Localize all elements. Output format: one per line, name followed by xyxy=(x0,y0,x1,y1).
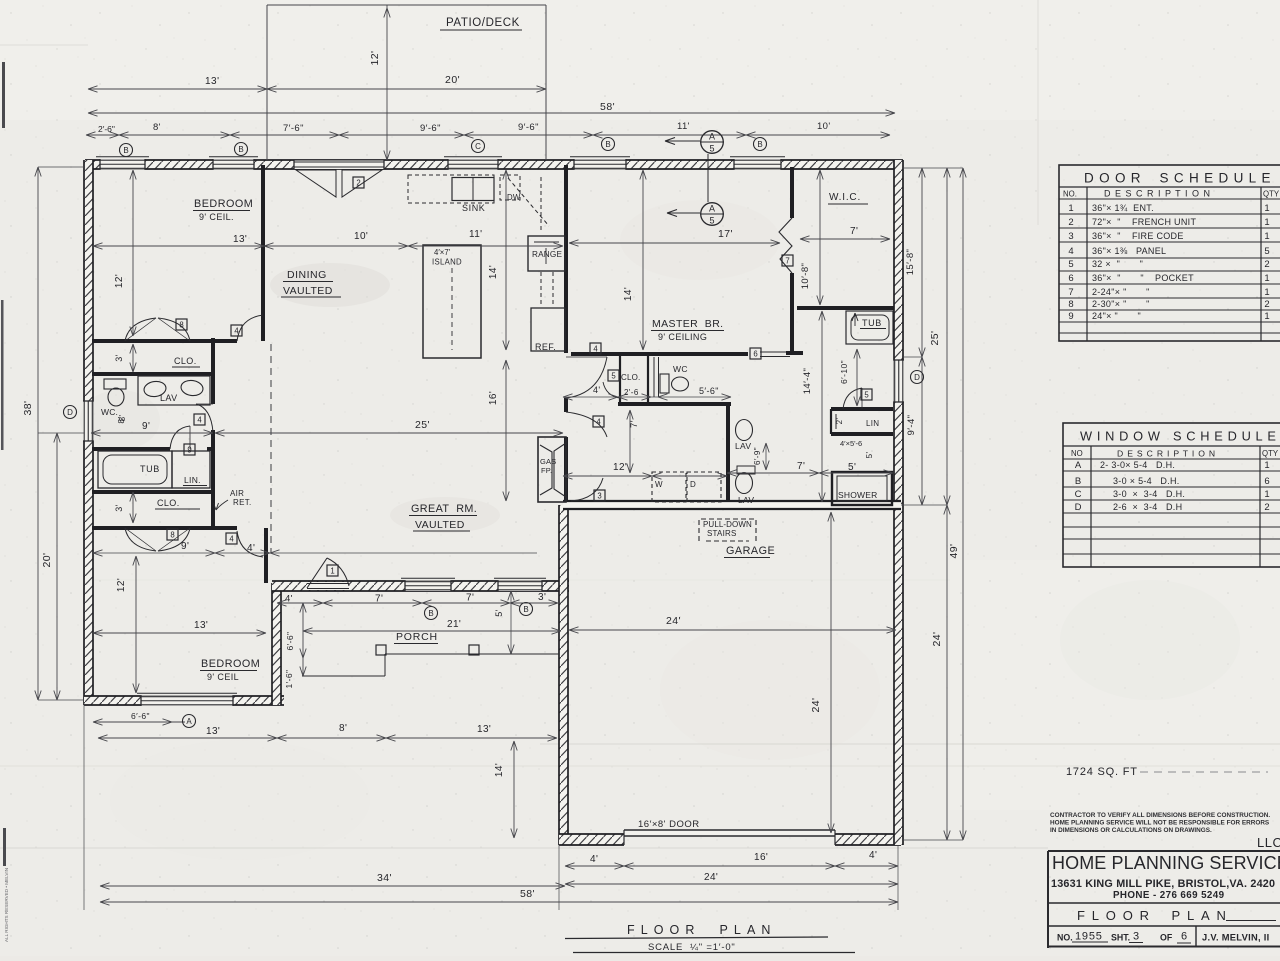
svg-text:9′-4": 9′-4" xyxy=(906,415,917,436)
svg-text:A: A xyxy=(709,132,715,142)
svg-text:4': 4' xyxy=(285,594,293,605)
svg-text:2': 2' xyxy=(835,418,844,425)
svg-text:58': 58' xyxy=(600,101,615,113)
svg-text:BEDROOM: BEDROOM xyxy=(194,198,253,210)
svg-text:12': 12' xyxy=(613,462,627,473)
svg-text:5: 5 xyxy=(709,216,714,226)
svg-text:16': 16' xyxy=(754,852,768,863)
svg-text:PORCH: PORCH xyxy=(396,631,438,643)
svg-text:6′-9": 6′-9" xyxy=(753,447,762,465)
svg-text:5: 5 xyxy=(1068,259,1073,270)
svg-text:36"× " " POCKET: 36"× " " POCKET xyxy=(1092,273,1194,283)
svg-text:ALL RIGHTS RESERVED • MELVIN: ALL RIGHTS RESERVED • MELVIN xyxy=(4,868,9,942)
svg-text:10′-8": 10′-8" xyxy=(800,263,811,290)
svg-text:C: C xyxy=(1075,489,1082,500)
svg-text:4: 4 xyxy=(234,326,239,335)
svg-text:HOME PLANNING SERVICE WILL NOT: HOME PLANNING SERVICE WILL NOT BE RESPON… xyxy=(1050,820,1270,827)
svg-text:2: 2 xyxy=(1264,259,1269,270)
svg-text:17': 17' xyxy=(718,228,733,240)
svg-text:3-0 × 3-4 D.H.: 3-0 × 3-4 D.H. xyxy=(1113,489,1185,499)
svg-text:4′×7': 4′×7' xyxy=(434,248,451,257)
svg-text:16′×8' DOOR: 16′×8' DOOR xyxy=(638,819,700,830)
svg-text:72"× " FRENCH UNIT: 72"× " FRENCH UNIT xyxy=(1092,217,1196,227)
svg-text:D E S C R I P T I O N: D E S C R I P T I O N xyxy=(1117,449,1216,459)
svg-text:W.I.C.: W.I.C. xyxy=(829,192,861,203)
svg-text:5: 5 xyxy=(1264,246,1269,257)
svg-text:24': 24' xyxy=(666,615,681,627)
svg-text:5': 5' xyxy=(865,452,874,459)
svg-text:A: A xyxy=(709,204,715,214)
svg-text:7': 7' xyxy=(466,593,474,604)
svg-text:12': 12' xyxy=(114,274,125,288)
svg-text:14': 14' xyxy=(494,763,505,777)
svg-text:13': 13' xyxy=(194,620,208,631)
svg-text:CLO.: CLO. xyxy=(621,373,640,382)
svg-text:1: 1 xyxy=(1264,231,1269,242)
svg-text:LAV: LAV xyxy=(738,495,754,505)
svg-text:PHONE - 276 669 5249: PHONE - 276 669 5249 xyxy=(1113,890,1225,901)
svg-text:D O O R S C H E D U L E: D O O R S C H E D U L E xyxy=(1084,171,1271,186)
svg-text:6: 6 xyxy=(753,349,757,358)
svg-text:8: 8 xyxy=(170,530,174,539)
svg-text:CLO.: CLO. xyxy=(174,356,197,366)
svg-text:D: D xyxy=(914,373,920,382)
svg-text:20': 20' xyxy=(41,553,53,568)
svg-text:16': 16' xyxy=(488,391,499,405)
svg-text:4: 4 xyxy=(596,417,601,426)
svg-text:2: 2 xyxy=(1068,217,1073,228)
svg-text:9' CEIL: 9' CEIL xyxy=(207,672,239,682)
svg-text:14': 14' xyxy=(623,287,634,301)
svg-text:36"× " FIRE CODE: 36"× " FIRE CODE xyxy=(1092,231,1184,241)
svg-text:24': 24' xyxy=(810,698,822,713)
svg-text:4': 4' xyxy=(593,385,601,395)
svg-text:1′-6": 1′-6" xyxy=(284,670,294,689)
svg-text:B: B xyxy=(428,609,433,618)
svg-text:36"× 1⅜ PANEL: 36"× 1⅜ PANEL xyxy=(1092,246,1166,256)
svg-text:FP.: FP. xyxy=(541,466,552,475)
svg-text:8: 8 xyxy=(1068,299,1073,310)
svg-text:SCALE ¼" =1′-0": SCALE ¼" =1′-0" xyxy=(648,942,736,953)
svg-text:B: B xyxy=(1075,476,1081,487)
svg-text:2- 3-0× 5-4 D.H.: 2- 3-0× 5-4 D.H. xyxy=(1100,460,1175,470)
svg-text:32 × " ": 32 × " " xyxy=(1092,259,1143,269)
svg-text:6′-6": 6′-6" xyxy=(131,711,150,721)
svg-text:4': 4' xyxy=(590,854,598,865)
svg-text:21': 21' xyxy=(447,619,461,630)
svg-text:24': 24' xyxy=(704,872,718,883)
svg-text:7: 7 xyxy=(1068,287,1073,298)
svg-text:4: 4 xyxy=(229,534,234,543)
svg-text:OF: OF xyxy=(1160,933,1173,943)
svg-text:4': 4' xyxy=(247,543,255,554)
svg-text:1: 1 xyxy=(1068,203,1073,214)
svg-text:D: D xyxy=(67,408,73,417)
svg-text:LAV: LAV xyxy=(735,441,751,451)
svg-text:36"× 1¾ ENT.: 36"× 1¾ ENT. xyxy=(1092,203,1154,213)
svg-text:7': 7' xyxy=(850,226,858,237)
svg-text:11': 11' xyxy=(469,229,483,240)
svg-text:GAS: GAS xyxy=(540,457,556,466)
svg-text:5': 5' xyxy=(494,609,504,617)
svg-text:25': 25' xyxy=(929,331,941,346)
svg-text:PULL-DOWN: PULL-DOWN xyxy=(703,520,752,529)
svg-text:1: 1 xyxy=(1264,287,1269,298)
svg-text:QTY: QTY xyxy=(1262,449,1279,458)
svg-text:2′-6": 2′-6" xyxy=(98,124,115,134)
svg-text:6: 6 xyxy=(1181,931,1187,943)
svg-text:5': 5' xyxy=(848,462,856,473)
svg-text:24"× " ": 24"× " " xyxy=(1092,311,1141,321)
svg-text:1: 1 xyxy=(1264,311,1269,322)
svg-text:12': 12' xyxy=(369,51,381,66)
svg-text:1955: 1955 xyxy=(1075,931,1103,943)
svg-text:C: C xyxy=(475,142,481,151)
svg-text:15′-8": 15′-8" xyxy=(905,249,916,276)
svg-text:1: 1 xyxy=(1264,217,1269,228)
svg-text:TUB: TUB xyxy=(862,318,882,328)
svg-text:2-30"× " ": 2-30"× " " xyxy=(1092,299,1150,309)
svg-text:4: 4 xyxy=(1068,246,1073,257)
svg-text:J.V. MELVIN, II: J.V. MELVIN, II xyxy=(1202,933,1270,943)
svg-text:5: 5 xyxy=(864,390,869,399)
svg-text:24': 24' xyxy=(931,632,943,647)
svg-text:9': 9' xyxy=(142,421,150,432)
svg-text:VAULTED: VAULTED xyxy=(415,519,465,531)
svg-text:7': 7' xyxy=(629,420,640,428)
svg-text:5′-6": 5′-6" xyxy=(699,386,719,396)
svg-text:38': 38' xyxy=(22,401,34,416)
svg-text:DINING: DINING xyxy=(287,269,327,281)
svg-text:7′-6": 7′-6" xyxy=(283,123,304,134)
svg-text:SHOWER: SHOWER xyxy=(838,490,877,500)
svg-text:2: 2 xyxy=(356,178,360,187)
svg-text:4′×5'-6: 4′×5'-6 xyxy=(840,439,862,448)
svg-text:D: D xyxy=(1075,502,1082,513)
svg-text:3': 3' xyxy=(114,504,124,512)
svg-text:STAIRS: STAIRS xyxy=(707,529,737,538)
svg-text:WC.: WC. xyxy=(101,407,118,417)
svg-text:7': 7' xyxy=(375,594,383,605)
svg-text:GREAT RM.: GREAT RM. xyxy=(411,503,477,515)
svg-text:NO.: NO. xyxy=(1057,933,1073,943)
svg-text:13631 KING MILL PIKE, BRISTOL,: 13631 KING MILL PIKE, BRISTOL,VA. 2420 xyxy=(1051,878,1275,890)
svg-text:2-24"× " ": 2-24"× " " xyxy=(1092,287,1150,297)
svg-text:LAV: LAV xyxy=(160,393,178,403)
svg-text:HOME PLANNING SERVICE: HOME PLANNING SERVICE xyxy=(1052,853,1280,873)
svg-text:6: 6 xyxy=(1068,273,1073,284)
svg-text:3: 3 xyxy=(1133,931,1139,943)
svg-text:14': 14' xyxy=(488,265,499,279)
svg-text:14′-4": 14′-4" xyxy=(802,368,813,395)
svg-text:4: 4 xyxy=(197,415,202,424)
svg-text:GARAGE: GARAGE xyxy=(726,545,775,557)
svg-text:8': 8' xyxy=(339,723,347,734)
svg-text:SHT.: SHT. xyxy=(1111,933,1130,943)
svg-text:CLO.: CLO. xyxy=(157,498,180,508)
svg-text:13': 13' xyxy=(206,726,220,737)
svg-text:1: 1 xyxy=(1264,460,1269,471)
svg-text:2: 2 xyxy=(1264,299,1269,310)
svg-text:25': 25' xyxy=(415,419,430,431)
svg-text:3: 3 xyxy=(597,491,601,500)
svg-text:4': 4' xyxy=(869,850,877,861)
svg-text:A: A xyxy=(186,717,192,726)
svg-text:7: 7 xyxy=(785,256,789,265)
svg-text:B: B xyxy=(238,145,243,154)
svg-text:13': 13' xyxy=(205,76,220,87)
svg-text:9: 9 xyxy=(1068,311,1073,322)
svg-text:1: 1 xyxy=(1264,203,1269,214)
svg-text:A: A xyxy=(1075,460,1082,471)
svg-text:9': 9' xyxy=(181,541,189,552)
svg-text:11': 11' xyxy=(677,121,690,132)
svg-text:6: 6 xyxy=(1264,476,1269,487)
svg-text:W: W xyxy=(655,480,663,489)
svg-text:12': 12' xyxy=(116,578,127,592)
svg-text:20': 20' xyxy=(445,74,460,86)
svg-text:9′-6": 9′-6" xyxy=(420,123,441,134)
svg-text:LIN: LIN xyxy=(866,419,879,428)
svg-text:6′-10": 6′-10" xyxy=(839,360,849,384)
svg-text:SINK: SINK xyxy=(462,203,485,213)
svg-text:3': 3' xyxy=(538,592,546,603)
svg-text:4: 4 xyxy=(593,344,598,353)
svg-text:9' CEILING: 9' CEILING xyxy=(658,332,707,342)
svg-text:13': 13' xyxy=(477,724,491,735)
svg-text:6′-6": 6′-6" xyxy=(285,632,295,651)
svg-text:NO.: NO. xyxy=(1063,190,1077,199)
svg-text:NO: NO xyxy=(1071,449,1083,458)
svg-text:5: 5 xyxy=(709,144,714,154)
svg-text:8': 8' xyxy=(118,415,127,422)
svg-text:QTY: QTY xyxy=(1263,190,1280,199)
svg-text:9′-6": 9′-6" xyxy=(518,122,539,133)
svg-text:10': 10' xyxy=(354,231,368,242)
svg-text:PATIO/DECK: PATIO/DECK xyxy=(446,17,520,29)
svg-text:1: 1 xyxy=(1264,489,1269,500)
svg-text:3: 3 xyxy=(1068,231,1073,242)
svg-text:B: B xyxy=(605,140,610,149)
svg-text:VAULTED: VAULTED xyxy=(283,285,333,297)
svg-text:3-0 × 5-4 D.H.: 3-0 × 5-4 D.H. xyxy=(1113,476,1180,486)
svg-text:8: 8 xyxy=(179,320,183,329)
svg-text:B: B xyxy=(523,605,528,614)
svg-text:LLC: LLC xyxy=(1257,835,1280,850)
svg-text:3': 3' xyxy=(114,354,124,362)
svg-text:LIN.: LIN. xyxy=(184,475,201,485)
svg-text:1: 1 xyxy=(330,566,334,575)
svg-text:DW: DW xyxy=(507,193,521,202)
svg-text:RANGE: RANGE xyxy=(532,250,562,259)
svg-text:MASTER BR.: MASTER BR. xyxy=(652,318,724,330)
svg-text:TUB: TUB xyxy=(140,464,160,474)
svg-text:49': 49' xyxy=(948,544,960,559)
svg-text:1: 1 xyxy=(1264,273,1269,284)
svg-text:D E S C R I P T I O N: D E S C R I P T I O N xyxy=(1104,189,1211,199)
svg-text:5: 5 xyxy=(611,371,616,380)
svg-text:34': 34' xyxy=(377,872,392,884)
svg-text:AIR: AIR xyxy=(230,489,244,498)
svg-text:WC: WC xyxy=(673,364,688,374)
svg-text:REF.: REF. xyxy=(535,342,556,352)
svg-text:13': 13' xyxy=(233,234,247,245)
svg-text:2-6 × 3-4 D.H: 2-6 × 3-4 D.H xyxy=(1113,502,1182,512)
svg-text:D: D xyxy=(690,480,696,489)
svg-text:F L O O R P L A N: F L O O R P L A N xyxy=(627,923,772,937)
svg-text:W I N D O W S C H E D U L E: W I N D O W S C H E D U L E xyxy=(1080,429,1277,444)
svg-text:9: 9 xyxy=(187,445,191,454)
svg-text:1724 SQ. FT: 1724 SQ. FT xyxy=(1066,766,1138,778)
svg-text:58': 58' xyxy=(520,888,535,900)
svg-text:F L O O R P L A N: F L O O R P L A N xyxy=(1077,908,1227,923)
svg-text:8': 8' xyxy=(153,122,161,133)
svg-text:10': 10' xyxy=(817,121,831,132)
svg-text:7': 7' xyxy=(797,461,805,472)
svg-text:B: B xyxy=(123,146,128,155)
svg-text:2: 2 xyxy=(1264,502,1269,513)
svg-text:ISLAND: ISLAND xyxy=(432,258,462,267)
svg-text:9' CEIL.: 9' CEIL. xyxy=(199,212,234,222)
svg-text:BEDROOM: BEDROOM xyxy=(201,658,260,670)
svg-text:RET.: RET. xyxy=(233,498,252,507)
svg-text:IN DIMENSIONS OR CALCULATIONS: IN DIMENSIONS OR CALCULATIONS ON DRAWING… xyxy=(1050,827,1212,834)
svg-text:B: B xyxy=(757,140,762,149)
svg-text:CONTRACTOR TO VERIFY ALL DIMEN: CONTRACTOR TO VERIFY ALL DIMENSIONS BEFO… xyxy=(1050,812,1270,819)
svg-text:2'-6: 2'-6 xyxy=(624,388,639,397)
